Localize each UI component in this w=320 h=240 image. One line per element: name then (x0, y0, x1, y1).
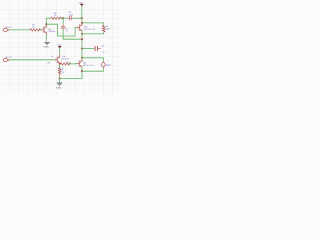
wire VCC2 to Q4 collector (59, 48, 61, 55)
pin Q4 base (56, 59, 57, 61)
pin Q1 emitter red (45, 33, 47, 34)
capacitor C2 (68, 16, 73, 20)
ground GND1 (44, 42, 50, 48)
svg-text:1u: 1u (102, 51, 104, 54)
pin Q2 collector (81, 23, 83, 25)
transistor Q4 (55, 57, 62, 64)
wire bus to Q3 (81, 49, 83, 58)
wire Q3 collector up (81, 58, 83, 60)
wire R4 to Q3 base (69, 63, 78, 65)
svg-text:IN 1.0: IN 1.0 (5, 26, 12, 29)
wire C1 bottom to node (63, 29, 82, 39)
port IN1 (3, 28, 8, 31)
svg-text:1k: 1k (54, 14, 56, 17)
pin end port IN1 (8, 29, 9, 30)
wire Q1 emitter (45, 34, 47, 41)
svg-text:100k: 100k (106, 28, 110, 31)
power VCC1 (79, 2, 84, 6)
svg-text:R4: R4 (66, 61, 68, 64)
svg-text:100n: 100n (68, 13, 73, 16)
wire Q3 emitter (81, 67, 83, 71)
pin Q4 emitter (59, 62, 61, 65)
resistor R6 vertical (58, 68, 61, 74)
pin Q4 collector (59, 55, 61, 57)
transistor Q2 (77, 24, 84, 31)
transistor Q3 (77, 60, 84, 67)
svg-text:1k: 1k (51, 55, 53, 58)
wire below OUT port (82, 67, 103, 71)
wire collector row to R5 (82, 23, 104, 26)
wire C3 row (82, 48, 94, 50)
node Q1 collector (45, 23, 47, 25)
wire in2 (9, 59, 56, 61)
resistor R1 (30, 29, 41, 32)
svg-text:BC557B: BC557B (85, 28, 95, 31)
wire in1 (9, 29, 30, 31)
svg-text:470: 470 (61, 71, 64, 74)
pin R6 bottom (59, 74, 61, 77)
wire staircase Q1C to Q2 base (46, 24, 77, 36)
transistor Q1 (42, 26, 49, 33)
svg-text:BC547B: BC547B (62, 58, 69, 61)
wire riser to R2 (46, 18, 50, 24)
node bus y39.2 (81, 38, 83, 40)
resistor R2 (51, 17, 62, 20)
wire VCC down (81, 6, 83, 18)
node collector Q2 (81, 22, 83, 24)
ground GND3 (56, 79, 62, 90)
wire R1 to Q1 (39, 29, 42, 31)
wire OUT row (82, 58, 103, 62)
node emitter/R5 (81, 33, 83, 35)
capacitor C3 (95, 46, 101, 50)
resistor R4 (60, 63, 70, 66)
wire C2 to rail right (73, 17, 82, 19)
svg-text:1k: 1k (32, 26, 34, 29)
node emitter Q3 (81, 70, 83, 72)
svg-text:BC547B: BC547B (84, 64, 94, 67)
wire R2 right (60, 17, 63, 19)
resistor R5 vertical (102, 26, 105, 32)
wire emitter down-left (60, 71, 83, 78)
wire R6 to gnd node (59, 76, 61, 78)
svg-text:GND: GND (56, 86, 62, 89)
grid (0, 0, 120, 94)
pin Q1 base (42, 29, 44, 31)
node VCC (81, 17, 83, 19)
svg-text:IN 2.0: IN 2.0 (5, 56, 12, 59)
svg-text:OUT: OUT (106, 64, 111, 67)
capacitor C1 (61, 25, 65, 30)
svg-text:1u: 1u (66, 29, 68, 32)
wire Q1 collector to node (45, 24, 47, 25)
wire to C2 (63, 17, 68, 19)
wire VCC dot down to collector node (81, 18, 83, 23)
node Q4 emitter / R4 (59, 63, 61, 65)
svg-text:GND: GND (44, 46, 50, 49)
port IN2 (3, 58, 8, 61)
wire C1 column (62, 18, 64, 25)
node bus y48.6 (81, 48, 83, 50)
svg-text:BC547B: BC547B (49, 30, 56, 33)
node OUT row (81, 57, 83, 59)
port OUT (102, 62, 105, 67)
wire below R5 (82, 32, 104, 34)
wire R6 top (59, 64, 61, 68)
power VCC2 (57, 44, 62, 48)
pin Q1 collector (45, 25, 47, 27)
wire Q2 emitter down (81, 31, 83, 49)
node X (62, 17, 64, 19)
pin Q3 collector (81, 59, 83, 61)
node R6/gnd (58, 77, 60, 79)
svg-text:1.0V: 1.0V (46, 62, 51, 65)
pin end port IN2 (8, 60, 9, 61)
